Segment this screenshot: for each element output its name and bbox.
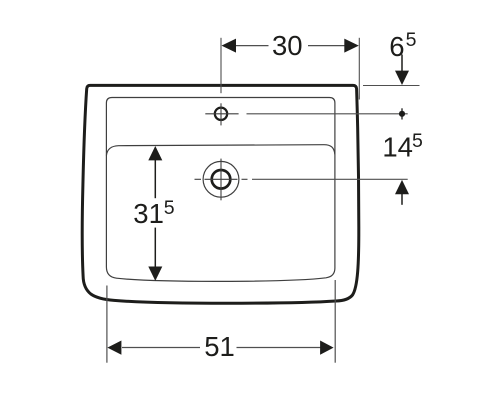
faucet hole crosshair vertical bbox=[220, 103, 222, 125]
dimension 51 extension line left bbox=[106, 286, 108, 363]
svg-text:31: 31 bbox=[133, 198, 164, 229]
bowl back edge bbox=[106, 145, 335, 156]
svg-text:51: 51 bbox=[204, 331, 235, 362]
dimension 51 arrow right bbox=[320, 341, 334, 355]
washbasin outer outline bbox=[82, 85, 359, 303]
dimension 30 arrow right bbox=[344, 39, 359, 53]
dimension 6.5 arrow stem bbox=[401, 55, 403, 73]
svg-text:6: 6 bbox=[389, 31, 404, 62]
drain outer circle bbox=[203, 161, 239, 197]
inner rim outline bbox=[106, 98, 335, 282]
dimension 14.5 arrow stem bbox=[401, 194, 403, 205]
dimension 30 extension line right bbox=[358, 38, 360, 100]
dimension 30 line bbox=[236, 45, 269, 47]
dimension 51 line bbox=[122, 347, 200, 349]
svg-text:14: 14 bbox=[382, 132, 413, 163]
dimension 31.5 line upper bbox=[154, 158, 156, 198]
svg-text:5: 5 bbox=[164, 197, 175, 219]
drain centerline to right arrow bbox=[252, 178, 408, 180]
drain crosshair horizontal dashes bbox=[195, 178, 202, 180]
drain crosshair vertical bbox=[220, 159, 222, 201]
dimension 30 extension line left (faucet centre) bbox=[220, 38, 222, 93]
shared dimension dot at faucet line bbox=[399, 111, 405, 117]
dimension 14.5 arrow up bbox=[395, 180, 409, 194]
dimension 6.5 arrow down bbox=[395, 71, 409, 85]
drain inner circle bbox=[212, 170, 231, 189]
dot vertical tick bbox=[401, 108, 403, 119]
dimension 51 extension line right bbox=[334, 280, 336, 363]
svg-text:30: 30 bbox=[272, 30, 303, 61]
dimension 30 arrow left bbox=[222, 39, 237, 53]
faucet hole crosshair horizontal bbox=[205, 113, 238, 115]
svg-text:5: 5 bbox=[406, 29, 417, 51]
svg-text:5: 5 bbox=[412, 130, 423, 152]
dimension 31.5 line lower bbox=[154, 228, 156, 269]
dimension 31.5 arrow up bbox=[148, 146, 162, 160]
dimension 31.5 arrow down bbox=[148, 267, 162, 281]
faucet centerline to right dot bbox=[247, 113, 408, 115]
dimension 51 arrow left bbox=[107, 341, 121, 355]
dimension 6.5 reference line bbox=[363, 85, 420, 87]
faucet hole circle bbox=[215, 108, 227, 120]
